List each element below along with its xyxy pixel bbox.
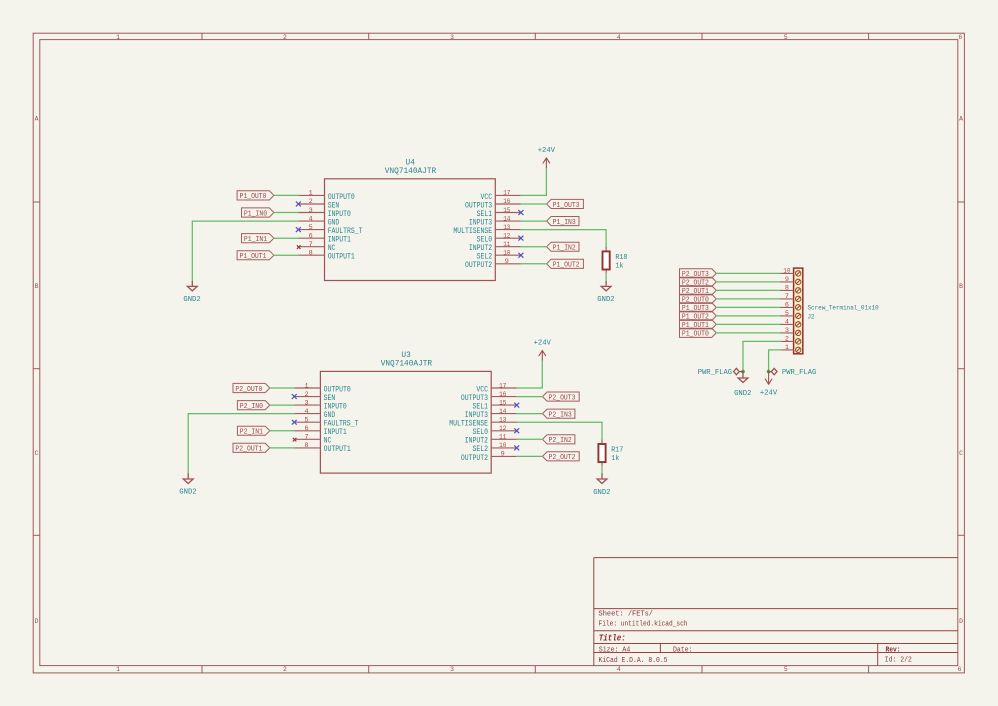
pin 10 (SEL2) of U3 xyxy=(491,447,517,449)
svg-text:GND2: GND2 xyxy=(597,296,614,304)
pin 6 (INPUT1) of U3 xyxy=(294,430,320,432)
wire P2_OUT0 to pin 7 of J2 xyxy=(716,298,781,300)
pin 11 (INPUT2) of U4 xyxy=(495,246,521,248)
pin 17 (VCC) of U3 xyxy=(491,387,517,389)
svg-text:GND2: GND2 xyxy=(593,489,610,497)
wire P1_OUT1 to pin 4 of J2 xyxy=(716,323,781,325)
svg-text:1k: 1k xyxy=(615,262,624,270)
svg-text:P2_OUT1: P2_OUT1 xyxy=(682,288,709,296)
pin 9 of J2 xyxy=(781,281,794,283)
pin 5 (FAULTRS_T) of U4 xyxy=(298,229,324,231)
wire P2_OUT2 to pin 9 of J2 xyxy=(716,281,781,283)
svg-text:P2_IN3: P2_IN3 xyxy=(549,412,572,420)
svg-text:3: 3 xyxy=(450,666,454,673)
svg-text:Size: A4: Size: A4 xyxy=(599,647,631,655)
pin 16 (OUTPUT3) of U3 xyxy=(491,396,517,398)
svg-text:3: 3 xyxy=(309,207,313,215)
svg-text:2: 2 xyxy=(305,391,309,399)
hierarchical label P2_OUT0 xyxy=(233,383,270,392)
svg-text:6: 6 xyxy=(958,666,962,673)
svg-text:9: 9 xyxy=(501,451,505,459)
svg-text:C: C xyxy=(959,450,963,457)
svg-text:B: B xyxy=(35,283,39,290)
no-connect flag on pin 12 (SEL0) of U3 xyxy=(514,428,519,433)
ground symbol GND2 below U4 xyxy=(191,281,193,286)
svg-text:10: 10 xyxy=(783,268,790,276)
svg-text:OUTPUT2: OUTPUT2 xyxy=(461,453,488,463)
svg-text:P2_IN2: P2_IN2 xyxy=(549,437,572,445)
screw circle pin 7 of J2 xyxy=(796,296,801,301)
svg-text:OUTPUT1: OUTPUT1 xyxy=(324,444,351,454)
hierarchical label P1_IN3 xyxy=(547,217,579,226)
svg-text:1k: 1k xyxy=(611,455,620,463)
svg-text:5: 5 xyxy=(784,34,788,41)
svg-text:+24V: +24V xyxy=(760,389,778,397)
svg-text:8: 8 xyxy=(305,442,309,450)
pin 4 (GND) of U4 xyxy=(298,220,324,222)
unconnected-pin x on pin 7 (NC) of U4 xyxy=(297,245,301,249)
pin 1 of J2 xyxy=(781,349,794,351)
svg-text:6: 6 xyxy=(309,232,313,240)
svg-text:GND2: GND2 xyxy=(734,390,751,398)
ground symbol GND2 below U3 xyxy=(187,474,189,479)
wire pin 14 of U3 to P2_IN3 xyxy=(517,413,543,415)
pin 8 of J2 xyxy=(781,289,794,291)
pin 1 (OUTPUT0) of U4 xyxy=(298,194,324,196)
svg-text:D: D xyxy=(35,618,39,625)
hierarchical label P2_OUT2 xyxy=(680,277,717,286)
svg-text:P1_IN3: P1_IN3 xyxy=(553,219,576,227)
svg-text:1: 1 xyxy=(309,190,313,198)
resistor R17 1k xyxy=(601,440,603,444)
wire P1_OUT1 to pin 8 of U4 xyxy=(274,254,299,256)
no-connect flag on pin 2 (SEN) of U4 xyxy=(296,202,301,207)
svg-text:15: 15 xyxy=(499,399,506,407)
svg-text:2: 2 xyxy=(283,666,287,673)
pin 2 (SEN) of U4 xyxy=(298,203,324,205)
ground symbol GND2 below R18 xyxy=(605,281,607,286)
svg-text:8: 8 xyxy=(309,250,313,258)
hierarchical label P2_IN0 xyxy=(237,401,269,410)
svg-text:P1_OUT3: P1_OUT3 xyxy=(553,202,580,210)
no-connect flag on pin 5 (FAULTRS_T) of U4 xyxy=(296,227,301,232)
no-connect flag on pin 5 (FAULTRS_T) of U3 xyxy=(292,420,297,425)
svg-text:17: 17 xyxy=(499,382,506,390)
svg-text:5: 5 xyxy=(785,310,789,318)
svg-text:6: 6 xyxy=(958,34,962,41)
ground symbol GND2 below J2 xyxy=(742,372,744,378)
resistor R18 1k xyxy=(605,247,607,251)
svg-text:VNQ7140AJTR: VNQ7140AJTR xyxy=(385,168,437,176)
connector J2 Screw_Terminal_01x10 body xyxy=(794,268,803,354)
svg-text:R17: R17 xyxy=(611,447,623,455)
svg-text:12: 12 xyxy=(503,232,510,240)
wire P1_IN1 to pin 6 of U4 xyxy=(274,237,299,239)
hierarchical label P1_OUT1 xyxy=(680,320,717,329)
svg-text:16: 16 xyxy=(503,198,510,206)
svg-text:Date:: Date: xyxy=(673,647,693,655)
svg-text:P2_IN1: P2_IN1 xyxy=(240,429,263,437)
svg-text:17: 17 xyxy=(503,190,510,198)
wire P2_OUT0 to pin 1 of U3 xyxy=(270,387,295,389)
svg-text:Screw_Terminal_01x10: Screw_Terminal_01x10 xyxy=(808,305,879,313)
svg-text:P2_OUT1: P2_OUT1 xyxy=(235,446,262,454)
op-amp-like driver IC U3 VNQ7140AJTR body xyxy=(320,371,491,473)
svg-text:PWR_FLAG: PWR_FLAG xyxy=(698,369,732,377)
ground symbol GND2 below R17 xyxy=(601,474,603,479)
pin 5 (FAULTRS_T) of U3 xyxy=(294,421,320,423)
svg-text:3: 3 xyxy=(305,399,309,407)
svg-text:Id: 2/2: Id: 2/2 xyxy=(885,657,912,665)
svg-text:13: 13 xyxy=(499,417,506,425)
no-connect flag on pin 15 (SEL1) of U3 xyxy=(514,403,519,408)
wire pin 11 of U3 to P2_IN2 xyxy=(517,438,543,440)
wire P2_OUT1 to pin 8 of U3 xyxy=(270,447,295,449)
wire P1_OUT0 to pin 3 of J2 xyxy=(716,332,781,334)
svg-text:14: 14 xyxy=(499,408,506,416)
wire P1_OUT3 to pin 6 of J2 xyxy=(716,306,781,308)
svg-text:4: 4 xyxy=(785,319,789,327)
svg-text:2: 2 xyxy=(283,34,287,41)
pin 7 (NC) of U4 xyxy=(298,246,324,248)
svg-text:U3: U3 xyxy=(401,352,411,360)
pin 3 (INPUT0) of U4 xyxy=(298,212,324,214)
svg-text:Title:: Title: xyxy=(599,632,626,643)
no-connect flag on pin 15 (SEL1) of U4 xyxy=(518,210,523,215)
wire pin 2 of J2 to ground junction xyxy=(743,341,781,371)
svg-text:PWR_FLAG: PWR_FLAG xyxy=(782,369,816,377)
power flag PWR_FLAG (right) xyxy=(769,368,777,374)
no-connect flag on pin 12 (SEL0) of U4 xyxy=(518,236,523,241)
svg-text:A: A xyxy=(959,115,963,122)
wire P1_IN0 to pin 3 of U4 xyxy=(274,212,299,214)
svg-text:U4: U4 xyxy=(406,160,416,168)
svg-text:11: 11 xyxy=(503,241,510,249)
wire P1_OUT0 to pin 1 of U4 xyxy=(274,194,299,196)
screw circle pin 2 of J2 xyxy=(796,339,801,344)
svg-text:B: B xyxy=(959,283,963,290)
svg-text:Sheet: /FETs/: Sheet: /FETs/ xyxy=(599,611,654,619)
pin 15 (SEL1) of U3 xyxy=(491,404,517,406)
svg-text:8: 8 xyxy=(785,285,789,293)
svg-text:P2_IN0: P2_IN0 xyxy=(240,403,263,411)
frame column/row tick marks xyxy=(201,33,203,39)
svg-text:J2: J2 xyxy=(808,313,815,321)
svg-text:P2_OUT0: P2_OUT0 xyxy=(235,386,262,394)
pin 15 (SEL1) of U4 xyxy=(495,212,521,214)
hierarchical label P2_IN3 xyxy=(543,409,575,418)
screw circle pin 5 of J2 xyxy=(796,313,801,318)
wire pin 1 of J2 to +24V junction xyxy=(769,350,781,372)
svg-text:7: 7 xyxy=(309,241,313,249)
wire pin 17 (VCC) of U4 to +24V xyxy=(521,167,547,195)
hierarchical label P1_OUT2 xyxy=(547,259,584,268)
svg-text:P1_OUT2: P1_OUT2 xyxy=(553,262,580,270)
screw circle pin 9 of J2 xyxy=(796,279,801,284)
hierarchical label P2_OUT0 xyxy=(680,294,717,303)
svg-text:3: 3 xyxy=(450,34,454,41)
wire pin 9 of U4 to P1_OUT2 xyxy=(521,263,547,265)
wire pin 9 of U3 to P2_OUT2 xyxy=(517,455,543,457)
svg-text:11: 11 xyxy=(499,434,506,442)
hierarchical label P2_OUT2 xyxy=(543,452,580,461)
svg-text:OUTPUT2: OUTPUT2 xyxy=(465,260,492,270)
hierarchical label P1_OUT3 xyxy=(680,303,717,312)
svg-text:P2_OUT3: P2_OUT3 xyxy=(549,394,576,402)
power symbol +24V above U3 xyxy=(539,351,546,361)
svg-text:P1_IN2: P1_IN2 xyxy=(553,245,576,253)
pin 16 (OUTPUT3) of U4 xyxy=(495,203,521,205)
pin 7 of J2 xyxy=(781,298,794,300)
no-connect flag on pin 10 (SEL2) of U4 xyxy=(518,253,523,258)
wire pin 4 (GND) of U3 to ground xyxy=(188,414,294,474)
hierarchical label P1_IN0 xyxy=(242,208,274,217)
screw circle pin 10 of J2 xyxy=(796,271,801,276)
hierarchical label P1_OUT0 xyxy=(237,191,274,200)
svg-text:7: 7 xyxy=(785,293,789,301)
pin 7 (NC) of U3 xyxy=(294,438,320,440)
hierarchical label P2_OUT1 xyxy=(233,443,270,452)
svg-text:R18: R18 xyxy=(615,254,627,262)
screw circle pin 4 of J2 xyxy=(796,322,801,327)
wire pin 13 (MULTISENSE) of U4 to resistor xyxy=(521,230,606,248)
svg-text:KiCad E.D.A. 8.0.5: KiCad E.D.A. 8.0.5 xyxy=(599,657,668,665)
svg-text:5: 5 xyxy=(309,224,313,232)
hierarchical label P2_OUT3 xyxy=(543,392,580,401)
wire P1_OUT2 to pin 5 of J2 xyxy=(716,315,781,317)
screw circle pin 6 of J2 xyxy=(796,305,801,310)
junction at GND2 net xyxy=(741,370,745,374)
power symbol +24V above U4 xyxy=(543,158,550,168)
power symbol +24V below J2 (pointing down) xyxy=(765,372,772,385)
svg-text:10: 10 xyxy=(499,442,506,450)
screw circle pin 3 of J2 xyxy=(796,330,801,335)
svg-text:6: 6 xyxy=(305,425,309,433)
wire P2_OUT3 to pin 10 of J2 xyxy=(716,272,781,274)
svg-text:6: 6 xyxy=(785,302,789,310)
pin 6 (INPUT1) of U4 xyxy=(298,237,324,239)
svg-text:5: 5 xyxy=(784,666,788,673)
pin 12 (SEL0) of U4 xyxy=(495,237,521,239)
wire pin 16 of U4 to P1_OUT3 xyxy=(521,203,547,205)
svg-text:P1_IN1: P1_IN1 xyxy=(244,236,267,244)
svg-text:+24V: +24V xyxy=(538,147,556,155)
hierarchical label P1_OUT0 xyxy=(680,328,717,337)
svg-text:9: 9 xyxy=(505,258,509,266)
hierarchical label P1_OUT1 xyxy=(237,251,274,260)
pin 8 (OUTPUT1) of U3 xyxy=(294,447,320,449)
svg-text:+24V: +24V xyxy=(534,340,552,348)
svg-text:4: 4 xyxy=(617,34,621,41)
pin 11 (INPUT2) of U3 xyxy=(491,438,517,440)
wire P2_IN0 to pin 3 of U3 xyxy=(270,404,295,406)
svg-text:5: 5 xyxy=(305,417,309,425)
pin 3 of J2 xyxy=(781,332,794,334)
svg-text:P1_OUT1: P1_OUT1 xyxy=(240,253,267,261)
svg-text:VNQ7140AJTR: VNQ7140AJTR xyxy=(381,361,433,369)
svg-text:15: 15 xyxy=(503,207,510,215)
wire pin 13 (MULTISENSE) of U3 to resistor xyxy=(517,422,602,440)
junction at +24V net xyxy=(767,370,771,374)
svg-text:1: 1 xyxy=(116,666,120,673)
svg-text:2: 2 xyxy=(785,336,789,344)
wire R18 to ground xyxy=(605,273,607,281)
hierarchical label P1_OUT2 xyxy=(680,311,717,320)
no-connect flag on pin 2 (SEN) of U3 xyxy=(292,394,297,399)
unconnected-pin x on pin 7 (NC) of U3 xyxy=(293,438,297,442)
hierarchical label P2_OUT3 xyxy=(680,269,717,278)
pin 4 (GND) of U3 xyxy=(294,413,320,415)
svg-text:A: A xyxy=(35,115,39,122)
wire pin 4 (GND) of U4 to ground xyxy=(192,221,298,281)
svg-text:P1_IN0: P1_IN0 xyxy=(244,210,267,218)
hierarchical label P2_IN1 xyxy=(237,426,269,435)
svg-text:P1_OUT0: P1_OUT0 xyxy=(240,193,267,201)
pin 4 of J2 xyxy=(781,323,794,325)
pin 1 (OUTPUT0) of U3 xyxy=(294,387,320,389)
svg-text:Rev:: Rev: xyxy=(886,647,901,655)
pin 6 of J2 xyxy=(781,306,794,308)
pin 2 (SEN) of U3 xyxy=(294,396,320,398)
pin 13 (MULTISENSE) of U4 xyxy=(495,229,521,231)
svg-text:13: 13 xyxy=(503,224,510,232)
pin 2 of J2 xyxy=(781,340,794,342)
svg-text:GND2: GND2 xyxy=(183,296,200,304)
svg-text:4: 4 xyxy=(617,666,621,673)
pin 9 (OUTPUT2) of U4 xyxy=(495,263,521,265)
svg-text:16: 16 xyxy=(499,391,506,399)
wire pin 17 (VCC) of U3 to +24V xyxy=(517,360,543,388)
pin 10 of J2 xyxy=(781,272,794,274)
svg-text:P2_OUT2: P2_OUT2 xyxy=(549,454,576,462)
pin 14 (INPUT3) of U3 xyxy=(491,413,517,415)
svg-text:1: 1 xyxy=(785,344,789,352)
svg-text:C: C xyxy=(35,450,39,457)
svg-text:OUTPUT1: OUTPUT1 xyxy=(328,252,355,262)
hierarchical label P1_OUT3 xyxy=(547,199,584,208)
svg-text:4: 4 xyxy=(309,215,313,223)
wire pin 14 of U4 to P1_IN3 xyxy=(521,220,547,222)
svg-text:4: 4 xyxy=(305,408,309,416)
pin 9 (OUTPUT2) of U3 xyxy=(491,455,517,457)
wire pin 11 of U4 to P1_IN2 xyxy=(521,246,547,248)
svg-text:D: D xyxy=(959,618,963,625)
hierarchical label P1_IN1 xyxy=(242,234,274,243)
svg-text:File: untitled.kicad_sch: File: untitled.kicad_sch xyxy=(599,621,688,629)
power flag PWR_FLAG (left) xyxy=(734,368,743,374)
svg-text:9: 9 xyxy=(785,276,789,284)
svg-text:10: 10 xyxy=(503,250,510,258)
pin 17 (VCC) of U4 xyxy=(495,194,521,196)
svg-text:12: 12 xyxy=(499,425,506,433)
svg-text:P1_OUT1: P1_OUT1 xyxy=(682,322,709,330)
svg-text:P1_OUT3: P1_OUT3 xyxy=(682,305,709,313)
screw circle pin 8 of J2 xyxy=(796,288,801,293)
svg-text:1: 1 xyxy=(305,382,309,390)
pin 13 (MULTISENSE) of U3 xyxy=(491,421,517,423)
pin 3 (INPUT0) of U3 xyxy=(294,404,320,406)
svg-text:P2_OUT3: P2_OUT3 xyxy=(682,271,709,279)
screw circle pin 1 of J2 xyxy=(796,347,801,352)
wire P2_IN1 to pin 6 of U3 xyxy=(270,430,295,432)
wire P2_OUT1 to pin 8 of J2 xyxy=(716,289,781,291)
svg-text:14: 14 xyxy=(503,215,510,223)
title block border lines xyxy=(594,558,958,666)
pin 12 (SEL0) of U3 xyxy=(491,430,517,432)
svg-text:P1_OUT2: P1_OUT2 xyxy=(682,314,709,322)
svg-text:P2_OUT0: P2_OUT0 xyxy=(682,297,709,305)
pin 5 of J2 xyxy=(781,315,794,317)
wire pin 16 of U3 to P2_OUT3 xyxy=(517,396,543,398)
svg-text:2: 2 xyxy=(309,198,313,206)
svg-text:7: 7 xyxy=(305,434,309,442)
pin 8 (OUTPUT1) of U4 xyxy=(298,254,324,256)
pin 14 (INPUT3) of U4 xyxy=(495,220,521,222)
svg-text:3: 3 xyxy=(785,327,789,335)
svg-text:P1_OUT0: P1_OUT0 xyxy=(682,331,709,339)
wire R17 to ground xyxy=(601,466,603,474)
hierarchical label P2_OUT1 xyxy=(680,286,717,295)
svg-text:GND2: GND2 xyxy=(179,489,196,497)
pin 10 (SEL2) of U4 xyxy=(495,254,521,256)
no-connect flag on pin 10 (SEL2) of U3 xyxy=(514,445,519,450)
svg-text:P2_OUT2: P2_OUT2 xyxy=(682,280,709,288)
hierarchical label P1_IN2 xyxy=(547,242,579,251)
op-amp-like driver IC U4 VNQ7140AJTR body xyxy=(325,179,496,281)
hierarchical label P2_IN2 xyxy=(543,435,575,444)
svg-text:1: 1 xyxy=(116,34,120,41)
